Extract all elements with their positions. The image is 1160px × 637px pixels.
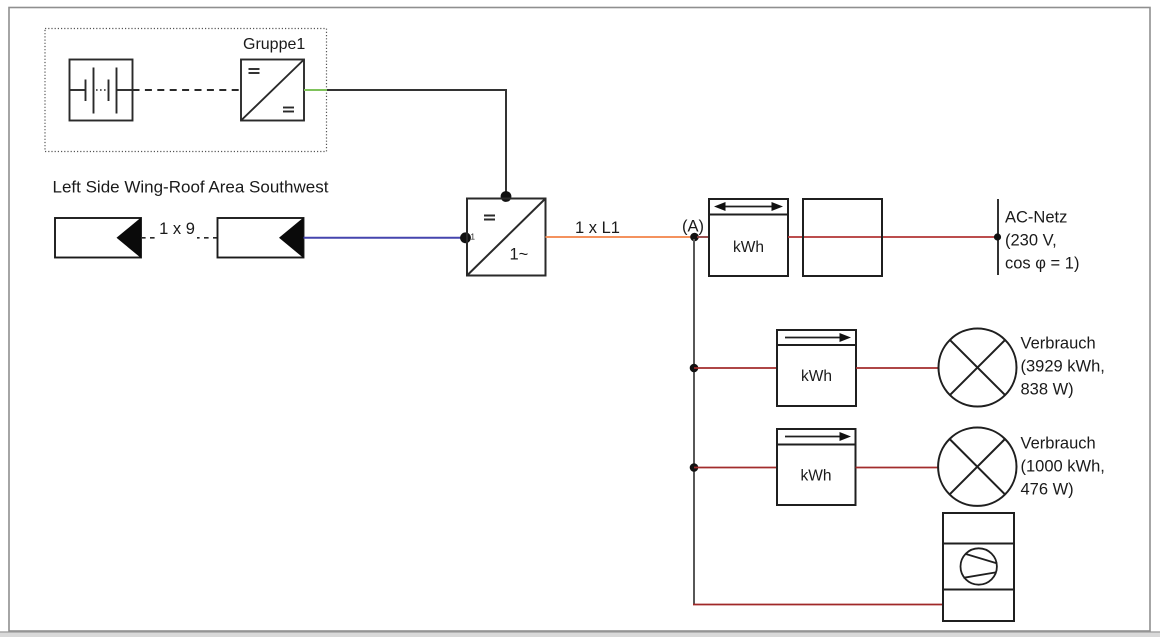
- DC/DC converter U2: [241, 60, 304, 121]
- svg-text:(3929 kWh,: (3929 kWh,: [1021, 358, 1105, 376]
- svg-text:(230 V,: (230 V,: [1005, 232, 1057, 250]
- wire AC L1 orange: [546, 236, 693, 238]
- battery B1: [70, 60, 133, 121]
- AC grid bar: [997, 199, 999, 275]
- group box Gruppe1: [45, 29, 327, 152]
- wire bus to meter2: [694, 367, 777, 369]
- wire converter to inverter: [327, 90, 506, 193]
- wire green DC output: [304, 89, 327, 91]
- node dot AC grid: [994, 233, 1001, 240]
- wire meter3 to lamp2: [856, 467, 939, 469]
- wire node to meter1: [697, 236, 709, 238]
- svg-text:(A): (A): [682, 218, 704, 236]
- meter M1 bidirectional kWh: [709, 199, 788, 276]
- window bottom edge: [0, 632, 1160, 637]
- svg-text:kWh: kWh: [733, 239, 764, 256]
- wire meter1 to AC grid: [788, 236, 997, 238]
- wire dashed module link: [141, 237, 217, 239]
- svg-text:Gruppe1: Gruppe1: [243, 36, 305, 53]
- junction dot inverter DC input: [501, 191, 512, 202]
- AC bus vertical wire: [693, 239, 695, 604]
- node A dot: [690, 233, 699, 242]
- svg-text:838 W): 838 W): [1021, 381, 1074, 399]
- wire blue PV string: [304, 237, 464, 239]
- svg-text:cos φ = 1): cos φ = 1): [1005, 255, 1079, 273]
- svg-text:Verbrauch: Verbrauch: [1021, 335, 1096, 353]
- wire AC bus to pump: [693, 604, 943, 606]
- svg-text:kWh: kWh: [801, 468, 832, 485]
- pump P1: [943, 513, 1014, 621]
- svg-text:1 x L1: 1 x L1: [575, 219, 620, 237]
- junction dot inverter PV input: [460, 232, 471, 243]
- svg-text:476 W): 476 W): [1021, 481, 1074, 499]
- lamp L1: [939, 329, 1017, 407]
- svg-text:1: 1: [471, 233, 476, 242]
- PV module M2: [218, 218, 304, 259]
- junction box: [803, 199, 882, 276]
- meter M2 kWh: [777, 330, 856, 406]
- svg-text:1~: 1~: [510, 246, 529, 264]
- svg-text:kWh: kWh: [801, 368, 832, 385]
- junction dot row3: [690, 463, 699, 472]
- label 1 x 9: [157, 229, 197, 243]
- svg-text:1 x 9: 1 x 9: [159, 220, 195, 238]
- svg-text:Left Side Wing-Roof Area South: Left Side Wing-Roof Area Southwest: [53, 177, 329, 196]
- wire dashed battery to converter: [133, 89, 242, 91]
- svg-text:AC-Netz: AC-Netz: [1005, 209, 1067, 227]
- svg-text:Verbrauch: Verbrauch: [1021, 435, 1096, 453]
- svg-text:(1000 kWh,: (1000 kWh,: [1021, 458, 1105, 476]
- inverter U1: [467, 199, 546, 276]
- wire meter2 to lamp1: [856, 367, 939, 369]
- meter M3 kWh: [777, 429, 856, 505]
- lamp L2: [938, 428, 1016, 506]
- junction dot row2: [690, 364, 699, 373]
- PV module M1: [55, 218, 141, 259]
- wire bus to meter3: [694, 467, 777, 469]
